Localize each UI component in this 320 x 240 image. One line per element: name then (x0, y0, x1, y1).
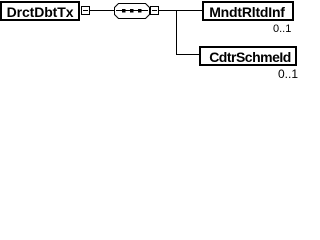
expand button (minus) of sequence (150, 6, 159, 15)
element box MndtRltdInf (202, 1, 294, 21)
wire to CdtrSchmeId (horizontal) (176, 54, 199, 55)
sequence compositor (octagon with three dots) (113, 2, 152, 21)
occurrence label 0..1 of CdtrSchmeId (278, 68, 298, 80)
expand button (minus) of DrctDbtTx (81, 6, 90, 15)
wire from sequence to MndtRltdInf (horizontal) (158, 10, 202, 11)
wire branch vertical (176, 10, 177, 55)
element box DrctDbtTx (0, 1, 80, 21)
element box CdtrSchmeId (199, 46, 297, 66)
occurrence label 0..1 of MndtRltdInf (273, 24, 291, 35)
wire from DrctDbtTx expand button to sequence compositor (89, 10, 114, 11)
